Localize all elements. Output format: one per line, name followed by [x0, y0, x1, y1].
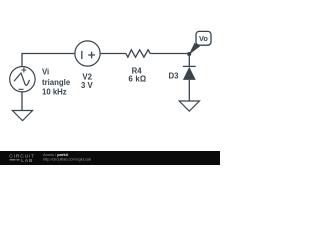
- wire top horizontal from Vi to V2: [22, 53, 75, 55]
- watermark footer bar: [0, 151, 220, 165]
- svg-text:D3: D3: [169, 71, 180, 80]
- wire diode to ground right: [188, 80, 190, 101]
- svg-text:Anons / porkii: Anons / porkii: [43, 152, 68, 157]
- ground left: [12, 111, 32, 121]
- node junction dot: [187, 52, 191, 56]
- wire left vertical corner down to Vi source: [21, 53, 23, 67]
- svg-text:6 kΩ: 6 kΩ: [128, 75, 146, 84]
- label V2 3 V: [81, 73, 94, 90]
- voltage source V2: [75, 41, 100, 66]
- probe flag Vo: [189, 31, 211, 55]
- label R4 6 kOhm: [128, 66, 146, 83]
- wire below Vi source: [21, 92, 23, 111]
- svg-text:Vi: Vi: [42, 68, 49, 77]
- label Vi triangle 10 kHz: [42, 68, 71, 97]
- svg-text:10 kHz: 10 kHz: [42, 87, 67, 96]
- ground right: [179, 101, 199, 111]
- svg-text:http://circuitlab.com/cgk1ca8: http://circuitlab.com/cgk1ca8: [43, 158, 91, 162]
- resistor R4: [126, 50, 150, 57]
- wire V2 to R4: [100, 53, 126, 55]
- svg-text:LAB: LAB: [21, 158, 33, 164]
- diode D3: [183, 66, 196, 80]
- wire R4 to node: [150, 53, 189, 55]
- svg-text:triangle: triangle: [42, 78, 71, 87]
- svg-text:3 V: 3 V: [81, 81, 94, 90]
- wire node to diode: [188, 54, 190, 67]
- label D3: [169, 71, 180, 80]
- voltage source Vi (triangle 10 kHz): [10, 67, 35, 92]
- svg-text:Vo: Vo: [199, 34, 208, 43]
